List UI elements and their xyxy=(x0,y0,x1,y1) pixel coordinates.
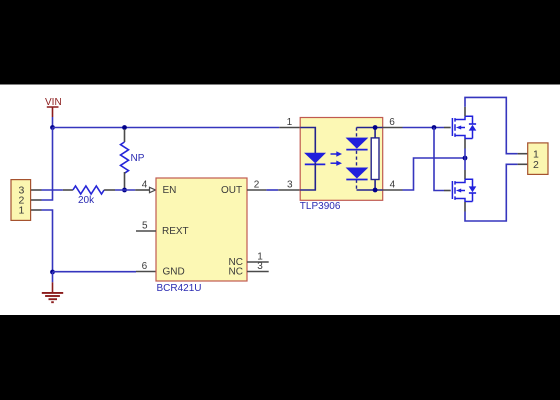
pin EN clock marker xyxy=(150,187,156,192)
svg-text:REXT: REXT xyxy=(162,226,189,237)
wire 20k right lead xyxy=(104,189,115,191)
svg-text:1: 1 xyxy=(19,205,25,217)
wire pin4 net to source junction xyxy=(403,158,466,190)
svg-text:GND: GND xyxy=(163,266,185,277)
wire connector pin1 lead xyxy=(31,209,42,211)
wire VIN stub xyxy=(52,117,54,128)
wire TLP pin6 lead xyxy=(383,127,403,129)
wire REXT lead xyxy=(136,230,156,232)
wire gate net down to gate2 xyxy=(434,128,444,191)
wire 20k to EN junction xyxy=(115,189,135,191)
node VIN rail junction xyxy=(50,125,55,130)
resistor NP xyxy=(121,142,129,173)
wire TLP pin4 lead xyxy=(383,189,403,191)
wire NC1 lead xyxy=(247,261,269,263)
diode LED D1 xyxy=(305,153,326,164)
svg-text:2: 2 xyxy=(254,179,260,190)
wire NC3 lead xyxy=(247,271,269,273)
op-amp box U1 BCR421U xyxy=(156,178,247,294)
connector J2 (right) xyxy=(528,143,548,175)
wire gate2 lead xyxy=(444,190,451,192)
wire VIN rail xyxy=(53,127,280,129)
wire pin1 down to ground net xyxy=(42,210,53,272)
wire photodiode dashed stack xyxy=(356,128,358,191)
wire TLP input bottom xyxy=(300,163,315,190)
svg-text:20k: 20k xyxy=(78,195,95,206)
wire Q2 drain to connector pin2 xyxy=(465,164,518,221)
wire connector pin3 lead xyxy=(31,189,42,191)
svg-text:2: 2 xyxy=(533,159,539,171)
svg-text:NC: NC xyxy=(229,266,243,277)
wire VIN down to connector pin2 xyxy=(42,128,53,201)
svg-text:3: 3 xyxy=(287,179,293,190)
wire pin3 to 20k xyxy=(42,189,63,191)
wire Q1 source lead xyxy=(464,139,466,149)
wire gate1 lead xyxy=(444,127,451,129)
wire TLP input top xyxy=(300,128,315,154)
wire TLP pin1 lead xyxy=(279,127,300,129)
diode photodiode PD1 xyxy=(346,138,367,150)
wire NP top lead xyxy=(124,129,126,142)
output element rectangle xyxy=(371,138,379,180)
wire Q2 drain lead xyxy=(464,202,466,212)
wire TLP top rail xyxy=(357,128,383,138)
wire ground stub xyxy=(52,272,54,282)
wire connector pin1 lead xyxy=(518,153,528,155)
schematic white band xyxy=(0,85,560,316)
wire connector pin2 lead xyxy=(518,163,528,165)
node TLP pin6 junction xyxy=(373,125,378,130)
svg-text:NP: NP xyxy=(131,153,145,164)
wire TLP pin3 lead xyxy=(278,189,300,191)
wire OUT net xyxy=(266,189,278,191)
wire gate net xyxy=(403,127,445,129)
wire Q1 drain lead xyxy=(464,107,466,116)
svg-text:4: 4 xyxy=(390,179,396,190)
wire Q1 drain to connector pin1 xyxy=(465,97,518,153)
wire EN pin lead xyxy=(135,189,149,191)
wire TLP bottom rail xyxy=(357,180,383,191)
svg-text:6: 6 xyxy=(142,261,148,272)
wire ground net to GND pin xyxy=(53,271,137,273)
svg-text:TLP3906: TLP3906 xyxy=(300,201,341,212)
node source junction xyxy=(463,156,468,161)
wire Q1 source to junction xyxy=(464,149,466,171)
diode photodiode PD2 xyxy=(346,168,367,180)
svg-text:6: 6 xyxy=(389,117,395,128)
svg-text:1: 1 xyxy=(287,117,293,128)
svg-text:4: 4 xyxy=(142,179,148,190)
node ground junction xyxy=(50,270,55,275)
connector J1 (left) xyxy=(11,180,31,221)
wire connector pin2 lead xyxy=(31,199,42,201)
wire OUT lead xyxy=(247,189,266,191)
wire GND pin lead xyxy=(136,271,156,273)
svg-text:OUT: OUT xyxy=(221,185,242,196)
transistor Q1 (top MOSFET) xyxy=(452,116,476,139)
node gate junction xyxy=(432,125,437,130)
light arrows xyxy=(331,151,343,166)
svg-text:BCR421U: BCR421U xyxy=(157,283,202,294)
wire NP bottom lead xyxy=(124,172,126,188)
svg-text:EN: EN xyxy=(163,185,177,196)
node EN net junction xyxy=(122,188,127,193)
node TLP pin4 junction xyxy=(373,188,378,193)
node NP top junction xyxy=(122,125,127,130)
supply VIN xyxy=(45,97,62,117)
wire 20k left lead xyxy=(63,189,73,191)
wire Q2 top lead xyxy=(464,170,466,179)
transistor Q2 (bottom MOSFET) xyxy=(452,179,476,202)
resistor 20k xyxy=(73,186,104,194)
ground xyxy=(42,282,63,302)
op-amp box U2 TLP3906 xyxy=(300,118,383,213)
svg-text:5: 5 xyxy=(142,220,148,231)
